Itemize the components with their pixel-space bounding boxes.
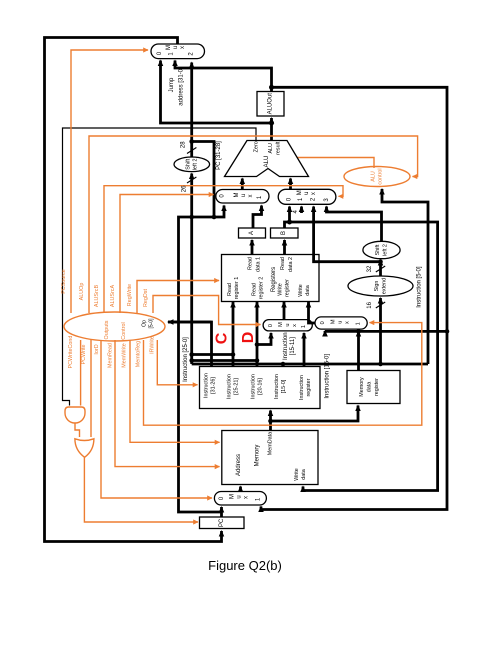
svg-text:u: u	[285, 323, 291, 326]
svg-text:register 1: register 1	[234, 277, 240, 299]
svg-text:[25-21]: [25-21]	[234, 378, 240, 395]
svg-text:Zero: Zero	[254, 141, 260, 152]
svg-text:Control: Control	[121, 322, 127, 339]
svg-text:ALUSrcA: ALUSrcA	[110, 285, 116, 308]
svg-text:Write: Write	[298, 284, 304, 296]
svg-text:ALUOp: ALUOp	[79, 283, 85, 301]
svg-text:32: 32	[367, 265, 373, 272]
svg-text:ALUSrcB: ALUSrcB	[94, 285, 100, 308]
svg-text:u: u	[241, 194, 247, 197]
svg-text:Jump: Jump	[169, 77, 175, 92]
svg-text:M: M	[230, 494, 236, 499]
svg-text:PCWrite: PCWrite	[81, 345, 87, 365]
svg-text:RegDst: RegDst	[143, 289, 149, 307]
svg-text:Registers: Registers	[271, 267, 277, 292]
svg-text:28: 28	[181, 141, 187, 148]
svg-text:x: x	[311, 192, 317, 195]
svg-text:M: M	[297, 190, 303, 195]
svg-text:Read: Read	[252, 283, 258, 296]
svg-text:Write: Write	[294, 468, 300, 480]
svg-text:[15-0]: [15-0]	[281, 379, 287, 393]
svg-text:MemData: MemData	[268, 432, 274, 455]
svg-text:Read: Read	[280, 257, 286, 270]
svg-text:u: u	[338, 321, 344, 324]
svg-text:MemRead: MemRead	[108, 343, 114, 368]
svg-text:x: x	[345, 321, 351, 324]
svg-text:A: A	[249, 231, 255, 235]
svg-text:M: M	[234, 193, 240, 198]
svg-text:[15-11]: [15-11]	[290, 337, 296, 356]
svg-text:Instruction: Instruction	[283, 332, 289, 360]
svg-text:B: B	[281, 231, 287, 235]
svg-text:control: control	[378, 168, 384, 184]
svg-text:M: M	[331, 319, 337, 324]
svg-text:u: u	[237, 495, 243, 498]
svg-text:M: M	[278, 322, 284, 327]
svg-text:ALU: ALU	[263, 155, 270, 167]
svg-text:Address: Address	[236, 454, 242, 476]
svg-text:0: 0	[268, 324, 274, 327]
svg-text:Instruction: Instruction	[299, 375, 305, 400]
svg-text:Instruction: Instruction	[227, 374, 233, 399]
svg-text:Instruction: Instruction	[274, 374, 280, 399]
svg-text:register 2: register 2	[259, 277, 265, 299]
svg-text:MemtoReg: MemtoReg	[136, 341, 142, 367]
svg-text:[31-26]: [31-26]	[211, 377, 217, 394]
svg-text:[5-0]: [5-0]	[149, 318, 155, 329]
svg-text:[20-16]: [20-16]	[258, 378, 264, 395]
svg-text:PCWriteCond: PCWriteCond	[68, 336, 74, 369]
svg-text:Shift: Shift	[375, 244, 381, 255]
svg-text:Instruction [5-0]: Instruction [5-0]	[417, 266, 423, 308]
svg-text:PC: PC	[219, 518, 225, 527]
svg-text:register: register	[285, 279, 291, 297]
svg-text:IorD: IorD	[94, 344, 100, 354]
svg-text:PCSource: PCSource	[61, 269, 67, 294]
svg-text:u: u	[173, 46, 179, 49]
svg-text:Outputs: Outputs	[104, 320, 110, 339]
svg-text:Instruction: Instruction	[204, 373, 210, 398]
svg-text:ALU: ALU	[370, 171, 376, 182]
svg-text:Instruction: Instruction	[251, 374, 257, 399]
svg-text:data: data	[305, 285, 311, 296]
svg-text:1: 1	[301, 325, 307, 328]
svg-text:Op: Op	[142, 320, 148, 327]
svg-text:register: register	[374, 378, 380, 396]
svg-text:Instruction [25-0]: Instruction [25-0]	[183, 337, 189, 382]
svg-text:Memory: Memory	[359, 377, 365, 397]
svg-text:register: register	[306, 378, 312, 396]
svg-text:x: x	[248, 195, 254, 198]
svg-text:MemWrite: MemWrite	[122, 343, 128, 367]
svg-text:PC [31-28]: PC [31-28]	[216, 141, 222, 170]
svg-text:M: M	[166, 45, 172, 50]
svg-text:ALUOut: ALUOut	[268, 93, 274, 115]
svg-text:D: D	[240, 332, 257, 344]
svg-text:x: x	[244, 496, 250, 499]
svg-text:left 2: left 2	[193, 158, 199, 170]
svg-text:Sign: Sign	[374, 281, 380, 292]
svg-text:data: data	[367, 382, 373, 393]
svg-text:x: x	[292, 324, 298, 327]
svg-text:data 2: data 2	[288, 257, 294, 272]
svg-text:Read: Read	[248, 257, 254, 270]
svg-text:Memory: Memory	[255, 445, 261, 467]
svg-text:16: 16	[367, 301, 373, 308]
svg-text:Read: Read	[227, 283, 233, 296]
svg-text:left 2: left 2	[382, 244, 388, 256]
svg-text:Figure Q2(b): Figure Q2(b)	[208, 558, 282, 573]
svg-text:Instruction [15-0]: Instruction [15-0]	[325, 354, 331, 399]
svg-text:C: C	[214, 332, 231, 344]
svg-text:result: result	[275, 141, 281, 155]
svg-text:x: x	[180, 46, 186, 49]
svg-text:data 1: data 1	[256, 257, 262, 272]
svg-text:0: 0	[320, 321, 326, 324]
svg-text:data: data	[301, 469, 307, 480]
svg-text:Shift: Shift	[185, 158, 191, 169]
svg-text:IRWrite: IRWrite	[150, 336, 156, 354]
svg-text:26: 26	[182, 185, 188, 192]
svg-text:RegWrite: RegWrite	[127, 284, 133, 306]
svg-text:u: u	[304, 192, 310, 195]
svg-text:1: 1	[356, 322, 362, 325]
svg-text:ALU: ALU	[268, 143, 274, 154]
svg-text:Write: Write	[278, 283, 284, 295]
svg-text:extend: extend	[381, 278, 387, 294]
svg-text:address [31-0]: address [31-0]	[179, 67, 185, 106]
